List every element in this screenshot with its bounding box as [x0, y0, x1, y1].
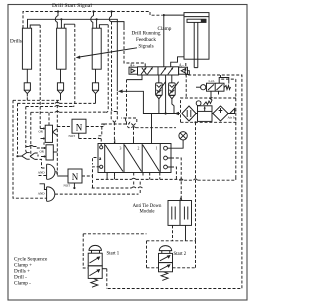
AND gate 1	[47, 164, 55, 179]
svg-text:Module: Module	[140, 209, 155, 214]
wire valve supply port down	[165, 75, 167, 114]
N box 1	[72, 119, 86, 133]
node start signal drop drill3	[92, 10, 94, 12]
AND gate 2	[47, 187, 55, 201]
dashed feedback bus cluster	[13, 97, 106, 199]
wire supply arrow into drills line	[123, 91, 180, 113]
sequencer diagonals	[105, 145, 159, 172]
wire drill start signal dashed bus	[23, 12, 163, 29]
flow control valve 1	[158, 75, 160, 83]
valve right position arrows	[161, 67, 173, 74]
OR valve rect 2	[46, 145, 53, 160]
wire feedback port drill 2	[64, 24, 75, 28]
node start signal drop valve feed	[110, 10, 112, 12]
start valve 2 spring	[161, 272, 168, 281]
svg-text:Drill Running: Drill Running	[132, 31, 161, 37]
clamp piston	[187, 19, 206, 22]
wire drill3 bottom to sensor	[95, 69, 97, 83]
drill cylinder 1	[22, 28, 31, 69]
sensor under drill 3	[92, 83, 98, 90]
FRL regulator	[198, 106, 213, 122]
FRL lubricator	[213, 106, 228, 121]
valve left position arrows	[141, 67, 153, 74]
svg-text:2: 2	[138, 147, 140, 151]
svg-text:Start 1: Start 1	[107, 252, 120, 257]
hops over riser x=57.3	[55, 102, 60, 103]
start valve 2 body	[159, 253, 173, 262]
sequencer top stubs	[114, 140, 116, 144]
svg-text:L.O.: L.O.	[209, 79, 215, 83]
shuttle junction 2	[30, 153, 35, 159]
FRL filter	[182, 106, 196, 121]
hop + feed to OR2 upper input	[26, 147, 41, 149]
wire start drop to drill 2 (hop over supply)	[55, 12, 58, 29]
svg-text:Drill Start Signal: Drill Start Signal	[52, 3, 92, 9]
svg-text:Clamp: Clamp	[158, 26, 172, 32]
wire A- pilot feed	[186, 71, 189, 75]
svg-text:Anti Tie Down: Anti Tie Down	[133, 204, 162, 209]
svg-text:Clamp -: Clamp -	[14, 281, 31, 287]
FRL gauge	[196, 101, 201, 106]
dashed lines right side	[107, 63, 242, 289]
node junction drill2 supply	[60, 18, 62, 20]
label Drill Running Feedback Signals	[132, 31, 161, 50]
drill cylinder 3	[92, 28, 101, 69]
svg-text:N: N	[76, 122, 83, 132]
sequencer section labels	[120, 147, 158, 151]
svg-text:Feedback: Feedback	[136, 37, 156, 43]
wire drill1 bottom to sensor	[26, 69, 28, 83]
wire clamp top port line	[164, 15, 184, 67]
wire drop supply drill2	[60, 19, 62, 28]
flow control valve 2	[171, 75, 173, 83]
start valve 1 button	[89, 245, 101, 250]
N box 2	[68, 169, 82, 183]
sequencer module body	[98, 144, 171, 173]
node supply junction	[165, 112, 167, 114]
air supply triangle	[230, 109, 235, 114]
pilot A+ box	[129, 67, 138, 74]
svg-text:1: 1	[156, 147, 158, 151]
wire clamp bottom port path	[171, 57, 184, 67]
wire feedback port drill 3	[99, 25, 108, 29]
wire leader arrow from feedback label	[79, 48, 138, 57]
wire drill2 bottom to sensor	[60, 69, 62, 83]
wire supply flow arrow	[175, 112, 180, 116]
junction merge Y B	[98, 118, 136, 140]
svg-text:NOT: NOT	[69, 134, 76, 138]
pilot A- box	[179, 67, 188, 74]
wire solid air supply line to drills	[28, 19, 118, 91]
svg-text:NOT: NOT	[64, 184, 71, 188]
sequencer bottom stubs	[107, 173, 114, 177]
svg-text:Signals: Signals	[138, 44, 153, 50]
svg-text:Start 2: Start 2	[174, 252, 187, 257]
node start signal drop drill2	[57, 10, 59, 12]
start 1 dashed connections	[83, 234, 146, 268]
svg-text:3: 3	[120, 147, 122, 151]
clamp rod	[194, 22, 198, 67]
wire feedback port drill 1	[30, 25, 40, 28]
wire module bottom stubs	[172, 225, 174, 240]
start 2 dashed box	[147, 241, 196, 268]
svg-text:Drills: Drills	[10, 39, 22, 45]
node junction drill3 supply	[96, 18, 98, 20]
svg-text:N: N	[72, 172, 79, 182]
start valve 2 button	[159, 246, 171, 251]
wire drop supply drill3	[96, 19, 98, 28]
sensor under drill 1	[24, 83, 30, 90]
wire A+ pilot feed (valve port to logic)	[127, 75, 143, 80]
svg-text:AND: AND	[38, 171, 46, 175]
valve 5/2 main body	[138, 67, 179, 75]
wire start drop to drill 3 (hop over supply)	[91, 12, 94, 29]
sequencer left ports	[100, 146, 103, 149]
start valve 1 body	[88, 253, 102, 266]
dashed enclosure FRL box	[181, 79, 237, 177]
start valve 1 spring	[91, 278, 98, 287]
OR valve rect 1	[45, 125, 52, 142]
sequencer right ports	[164, 146, 168, 150]
FRL regulator spring	[204, 98, 213, 106]
wire lamp to sequencer	[171, 140, 183, 148]
shuttle junction 1	[16, 155, 18, 157]
svg-text:AND: AND	[38, 192, 46, 196]
indicator lamp	[179, 132, 187, 140]
drill cylinder 2	[57, 28, 66, 69]
svg-text:A–: A–	[179, 62, 185, 67]
svg-text:A+: A+	[130, 62, 136, 67]
clamp cylinder	[184, 13, 209, 60]
sensor under drill 2	[57, 83, 63, 90]
svg-text:a: a	[99, 156, 102, 162]
cycle sequence text	[14, 257, 48, 287]
page border frame	[8, 5, 247, 301]
svg-text:Air In: Air In	[228, 116, 236, 120]
wire start drop to valve feed (hop)	[109, 12, 111, 22]
wire FRL connections	[196, 113, 230, 115]
hops on bottom buses	[132, 178, 137, 179]
